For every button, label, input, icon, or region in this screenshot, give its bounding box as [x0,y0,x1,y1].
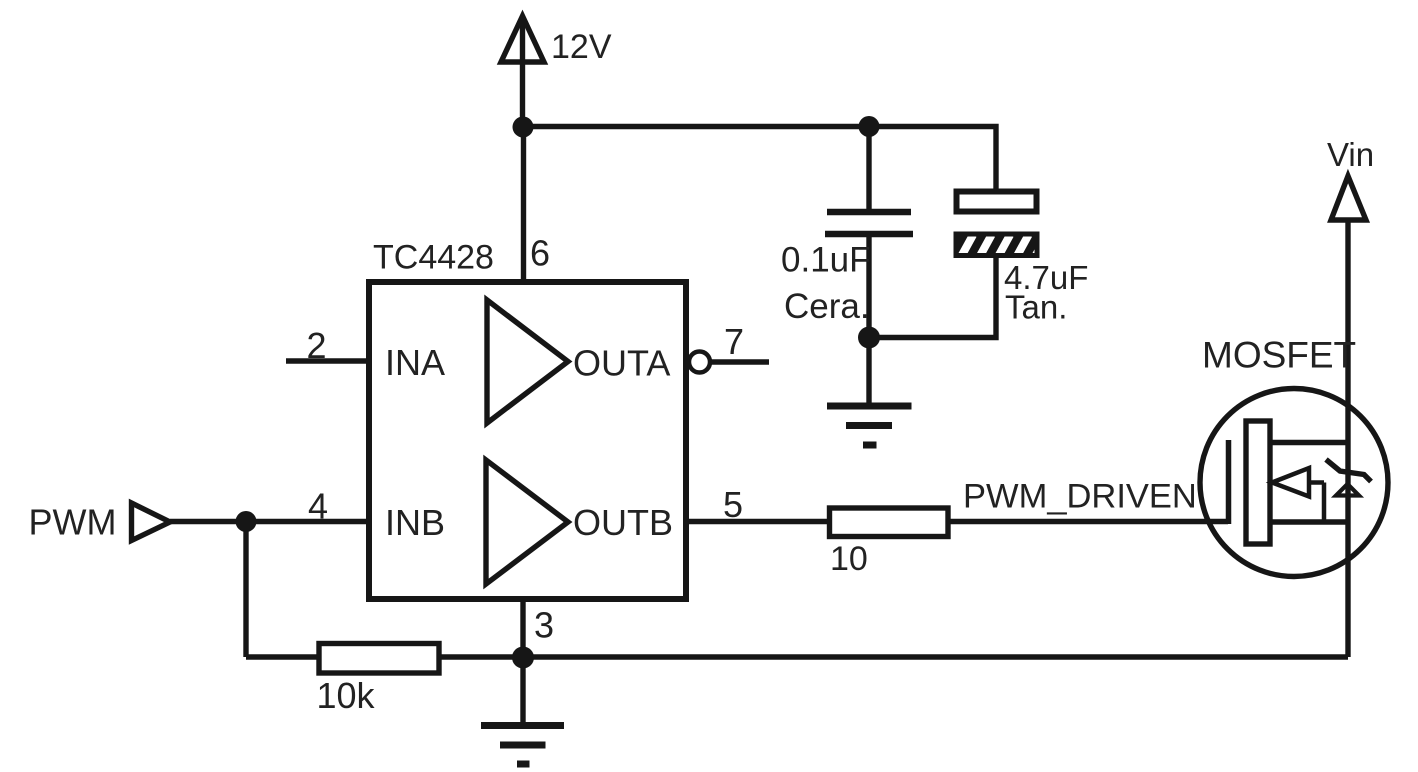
svg-text:PWM: PWM [29,502,117,543]
PWM input triangle [132,503,171,541]
wire tantalum bottom lead [869,254,996,338]
svg-text:OUTB: OUTB [573,502,673,543]
wire bottom rail 10k to MOSFET source [441,654,1348,659]
buffer A triangle [487,300,568,423]
node ceramic tap [859,116,880,137]
svg-text:INB: INB [385,502,445,543]
op-amp U1 TC4428 box [369,282,686,599]
svg-text:Vin: Vin [1327,136,1374,173]
wire ceramic cap bottom lead to ground [866,234,871,406]
wire top rail from 12V to tantalum branch [523,127,997,192]
node 12V rail [513,117,534,138]
ground (capacitors) [827,406,912,445]
transistor Q1 MOSFET circle [1200,389,1388,577]
resistor R1 10k body [319,644,439,674]
capacitor C1 0.1uF plates [825,212,913,234]
resistor R2 10 body [830,508,949,537]
power symbol 12V arrow [501,16,544,127]
svg-text:2: 2 [307,325,327,366]
MOSFET channel rect [1246,421,1270,544]
svg-text:PWM_DRIVEN: PWM_DRIVEN [963,478,1197,516]
wire ground lead pin3 [520,657,525,726]
svg-text:6: 6 [530,233,550,274]
svg-text:10: 10 [830,540,868,578]
svg-text:MOSFET: MOSFET [1202,335,1356,376]
svg-text:TC4428: TC4428 [373,239,494,277]
wire to 10k resistor [246,654,317,659]
svg-text:12V: 12V [551,28,612,66]
MOSFET drain bar [1270,440,1348,445]
MOSFET source bar [1270,519,1348,524]
wire gate lead PWM_DRIVEN [950,519,1228,524]
wire pin 3 vertical [520,599,525,657]
svg-text:Tan.: Tan. [1005,289,1067,326]
wire pin 4 (PWM to INB) [170,519,369,524]
power symbol Vin arrow [1331,176,1366,220]
node PWM [236,511,257,532]
svg-text:Cera.: Cera. [784,287,870,326]
svg-text:0.1uF: 0.1uF [781,241,871,280]
ground (pin 3) [481,726,564,765]
svg-text:10k: 10k [317,675,376,716]
zener body diode bar [1326,460,1371,482]
pin 7 inversion bubble [689,352,710,373]
svg-text:4: 4 [308,486,328,527]
svg-text:5: 5 [723,484,743,525]
wire ceramic cap top lead [866,127,871,213]
wire pin 6 vertical [521,127,526,285]
MOSFET gate bar [1226,440,1232,524]
svg-text:3: 3 [534,605,554,646]
buffer B triangle [486,460,568,584]
capacitor C2 4.7uF bottom plate (hatched) [954,232,1048,259]
zener body diode triangle [1336,484,1359,496]
svg-text:OUTA: OUTA [573,343,670,384]
wire main vertical Vin to bottom rail [1345,220,1350,657]
MOSFET body arrow [1272,468,1324,522]
capacitor C2 4.7uF top plate [957,192,1037,212]
wire pin 5 to R2 [686,519,827,524]
wire pin 2 stub [286,358,369,363]
svg-text:INA: INA [385,342,445,383]
node cap ground [858,327,880,349]
wire pin 7 stub [712,359,770,364]
node pin3 ground [512,647,534,669]
svg-text:7: 7 [724,321,744,362]
wire PWM drop to 10k [243,522,248,658]
